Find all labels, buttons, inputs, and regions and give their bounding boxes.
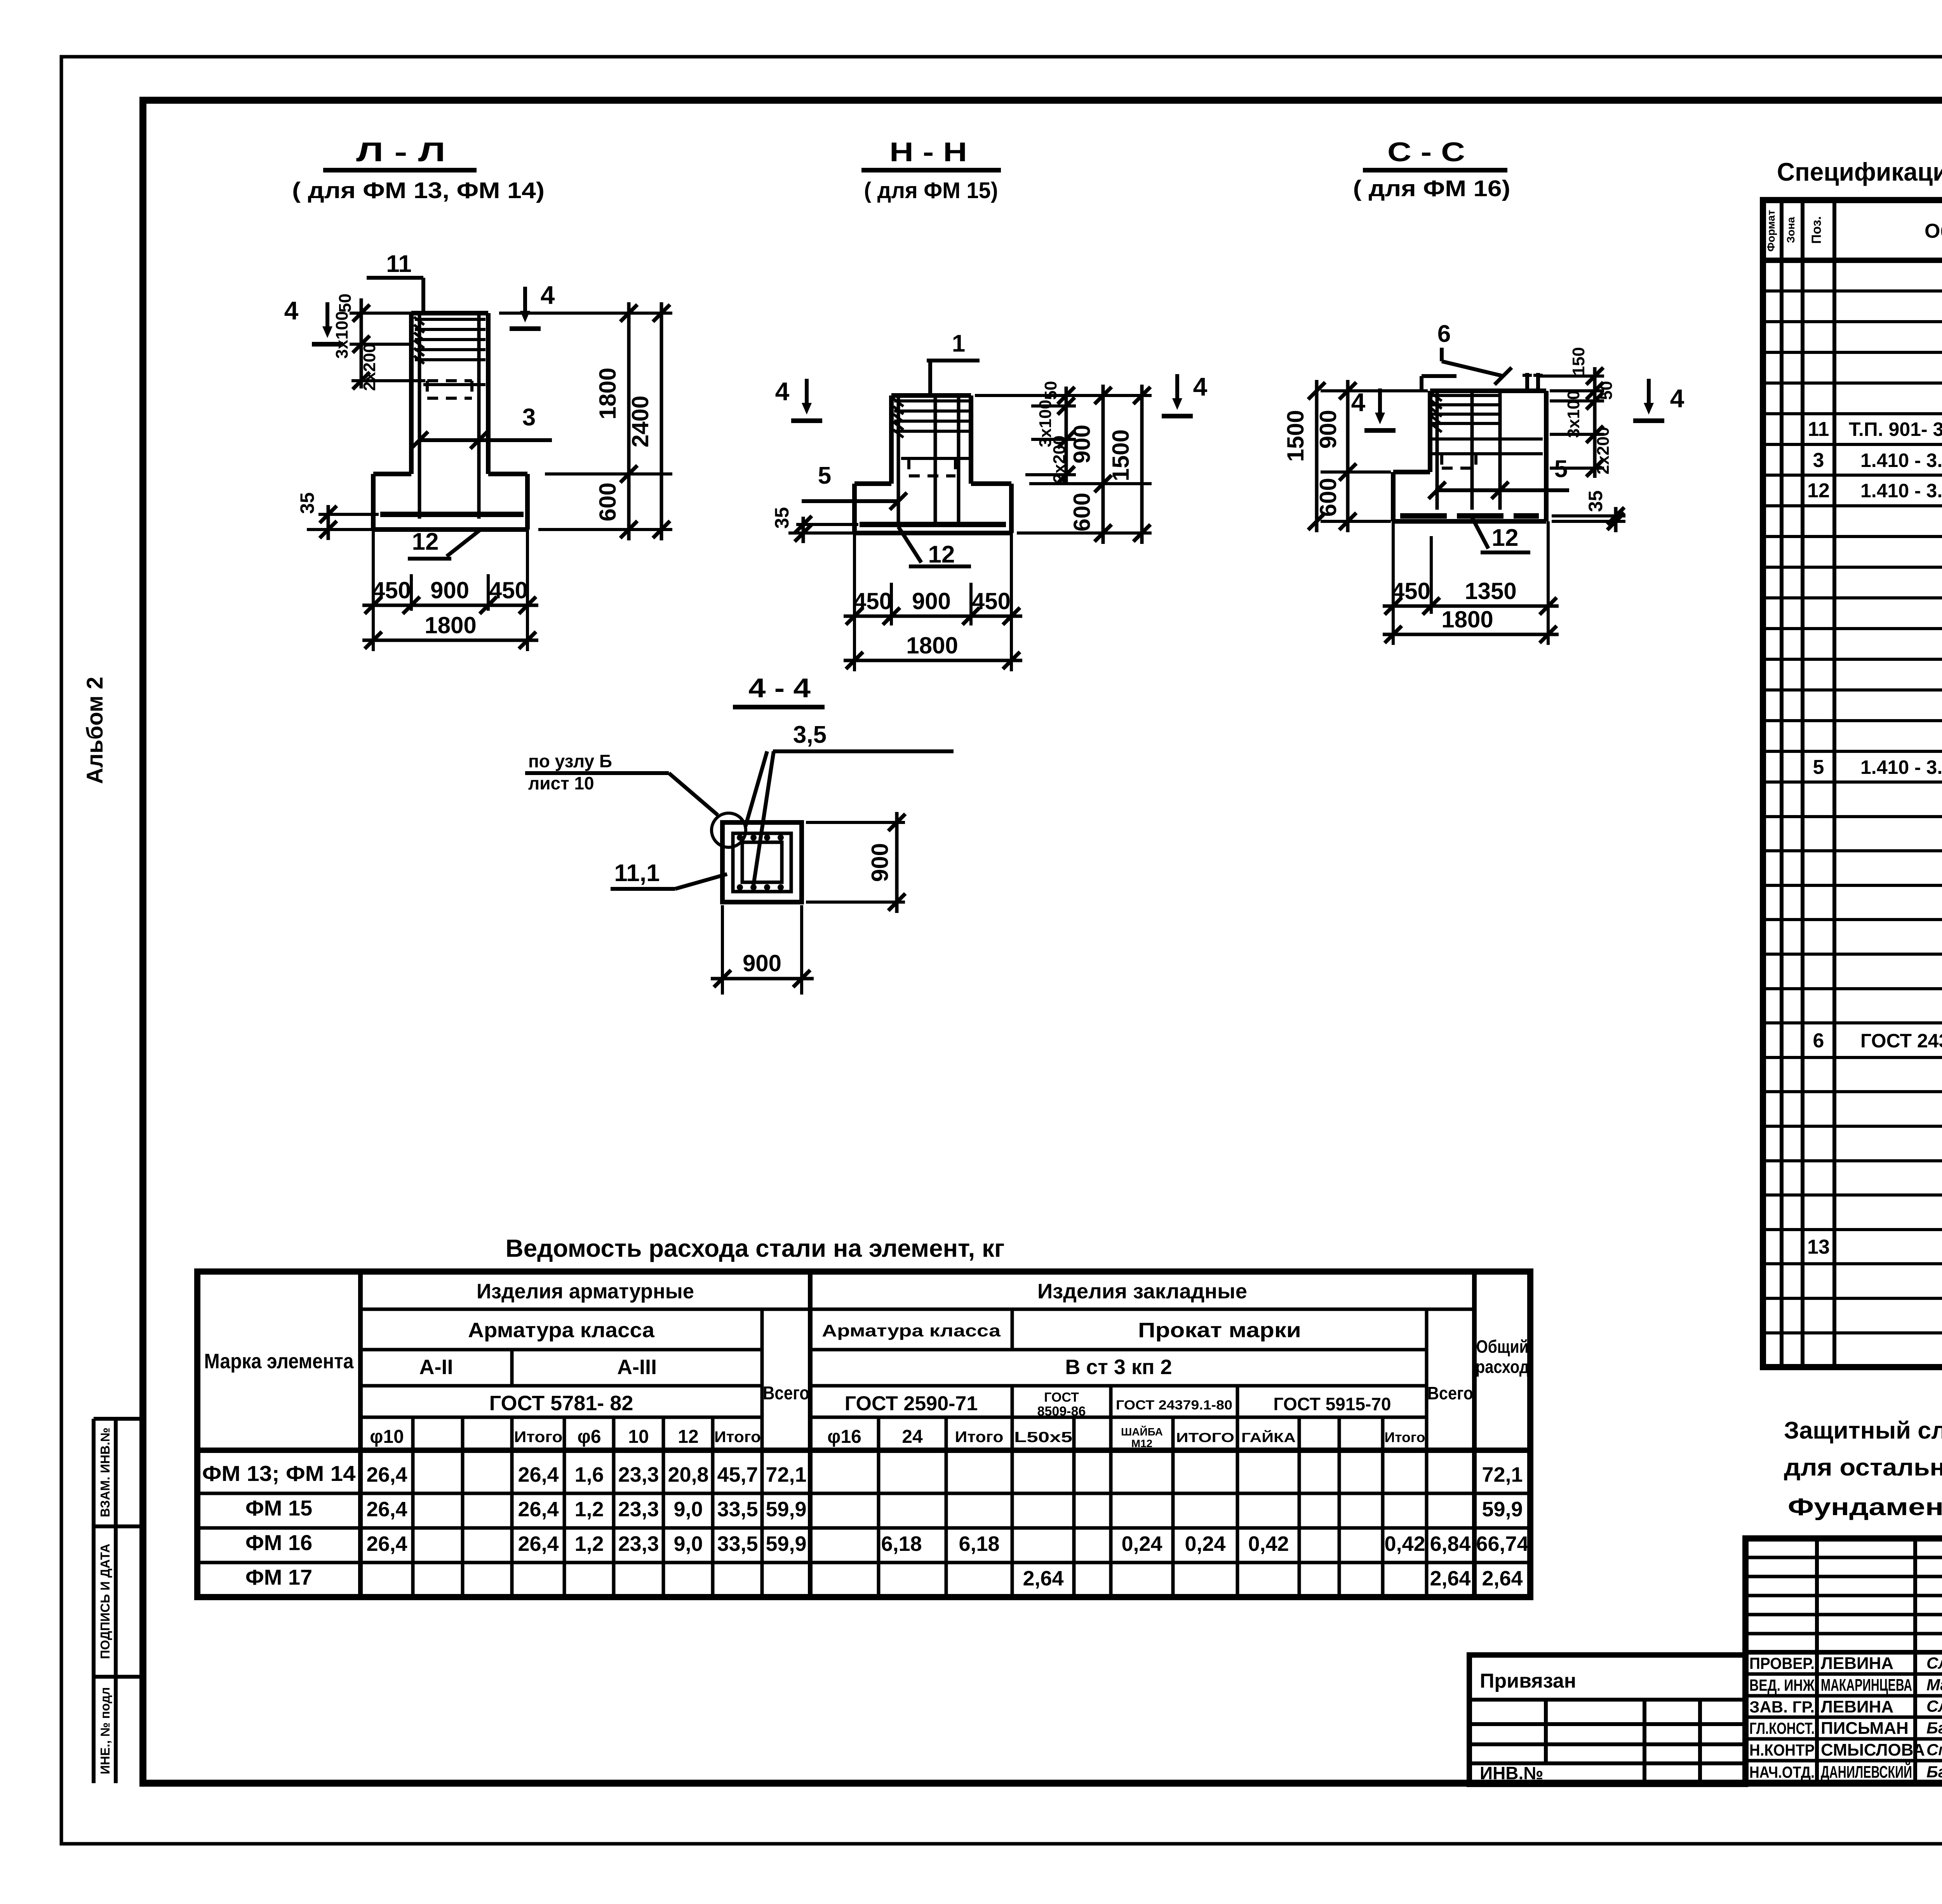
N-N right small dim chain xyxy=(975,394,1152,397)
L-L vertical bars xyxy=(418,313,421,519)
svg-text:1500: 1500 xyxy=(1108,429,1134,481)
svg-text:Спецификация к монолитным ф: Спецификация к монолитным фундаментам ФМ… xyxy=(1777,157,1942,186)
L-L bottom dim 450 900 450 xyxy=(362,604,538,607)
svg-text:2400: 2400 xyxy=(627,395,653,447)
svg-text:1,2: 1,2 xyxy=(574,1498,604,1521)
S-S pedestal mesh horizontal bars xyxy=(1432,394,1500,397)
svg-text:2,64: 2,64 xyxy=(1430,1567,1470,1590)
S-S bottom dim 450 1350 xyxy=(1383,604,1559,608)
svg-text:Всего: Всего xyxy=(1427,1383,1473,1403)
svg-text:26,4: 26,4 xyxy=(518,1463,559,1486)
svg-text:24: 24 xyxy=(902,1427,923,1447)
N-N pedestal mesh horizontal bars xyxy=(894,399,969,402)
S-S bottom dim 1800 xyxy=(1383,633,1559,636)
svg-text:1800: 1800 xyxy=(425,612,476,638)
svg-text:12: 12 xyxy=(1807,479,1830,502)
svg-text:10: 10 xyxy=(628,1427,649,1447)
svg-text:2x200: 2x200 xyxy=(1594,427,1613,474)
S-S anchor bolts on top xyxy=(1525,373,1529,391)
svg-text:В ст 3 кп 2: В ст 3 кп 2 xyxy=(1065,1355,1172,1379)
svg-text:2x200: 2x200 xyxy=(1050,435,1069,483)
spec table row lines left zone xyxy=(1763,289,1942,293)
svg-text:Н.КОНТР: Н.КОНТР xyxy=(1749,1741,1815,1759)
svg-text:2x200: 2x200 xyxy=(360,343,379,391)
L-L left small dim chain 50 3x100 2x200 xyxy=(350,312,412,315)
svg-text:Арматура класса: Арматура класса xyxy=(822,1321,1001,1340)
svg-text:Прокат марки: Прокат марки xyxy=(1138,1319,1301,1342)
svg-text:23,3: 23,3 xyxy=(618,1498,659,1521)
svg-text:12: 12 xyxy=(678,1427,698,1447)
svg-text:ГОСТ: ГОСТ xyxy=(1044,1390,1079,1405)
N-N bottom extension lines xyxy=(853,533,856,671)
svg-text:23,3: 23,3 xyxy=(618,1463,659,1486)
N-N bottom dim 1800 xyxy=(844,659,1022,662)
svg-text:2,64: 2,64 xyxy=(1482,1567,1523,1590)
svg-text:ПИСЬМАН: ПИСЬМАН xyxy=(1821,1719,1909,1738)
svg-text:6: 6 xyxy=(1437,321,1451,347)
L-L dashed mesh box xyxy=(427,379,472,382)
N-N pedestal outline xyxy=(889,395,894,484)
svg-text:φ10: φ10 xyxy=(370,1427,404,1447)
4-4 detail circle xyxy=(712,813,746,847)
svg-text:450: 450 xyxy=(972,588,1011,614)
svg-text:Изделия арматурные: Изделия арматурные xyxy=(477,1280,694,1303)
svg-text:33,5: 33,5 xyxy=(717,1532,758,1556)
svg-text:1.410 - 3.1 - 12: 1.410 - 3.1 - 12 xyxy=(1860,480,1942,502)
privyazan stamp block xyxy=(1469,1655,1745,1784)
svg-text:ЛЕВИНА: ЛЕВИНА xyxy=(1821,1654,1893,1673)
svg-text:ГАЙКА: ГАЙКА xyxy=(1241,1430,1296,1445)
svg-text:59,9: 59,9 xyxy=(1482,1498,1523,1521)
svg-text:900: 900 xyxy=(867,843,893,882)
svg-text:150: 150 xyxy=(1569,347,1588,375)
svg-text:ШАЙБА: ШАЙБА xyxy=(1121,1425,1163,1438)
L-L bottom rebar mesh 12 xyxy=(380,512,524,517)
S-S dashed mesh box xyxy=(1442,452,1476,455)
4-4 bottom dim 900 xyxy=(721,905,724,995)
svg-text:33,5: 33,5 xyxy=(717,1498,758,1521)
svg-text:900: 900 xyxy=(1315,410,1341,449)
svg-text:1800: 1800 xyxy=(595,368,621,419)
svg-text:72,1: 72,1 xyxy=(1482,1463,1523,1486)
svg-text:450: 450 xyxy=(853,588,892,614)
svg-text:9,0: 9,0 xyxy=(673,1498,703,1521)
L-L footing outline xyxy=(373,472,411,476)
S-S mesh flag xyxy=(1422,374,1456,378)
svg-text:4: 4 xyxy=(1670,384,1684,413)
svg-text:А-III: А-III xyxy=(617,1355,657,1379)
svg-text:ВЗАМ. ИНВ.№: ВЗАМ. ИНВ.№ xyxy=(98,1427,112,1517)
svg-text:0,42: 0,42 xyxy=(1384,1532,1425,1556)
svg-text:ПОДПИСЬ И ДАТА: ПОДПИСЬ И ДАТА xyxy=(98,1543,112,1659)
title block signature rows xyxy=(1745,1672,1942,1676)
svg-text:45,7: 45,7 xyxy=(717,1463,758,1486)
svg-text:26,4: 26,4 xyxy=(518,1498,559,1521)
svg-text:ГОСТ 5915-70: ГОСТ 5915-70 xyxy=(1273,1394,1391,1414)
svg-text:11: 11 xyxy=(1808,418,1829,441)
svg-text:26,4: 26,4 xyxy=(366,1463,407,1486)
svg-text:900: 900 xyxy=(912,588,951,614)
svg-text:Бгь: Бгь xyxy=(1926,1719,1942,1737)
svg-text:ЗАВ. ГР.: ЗАВ. ГР. xyxy=(1749,1698,1815,1716)
svg-text:ФМ 17: ФМ 17 xyxy=(245,1565,312,1589)
svg-text:72,1: 72,1 xyxy=(766,1463,806,1486)
S-S left dims 1500 900 600 xyxy=(1321,389,1428,392)
svg-text:ГОСТ 5781- 82: ГОСТ 5781- 82 xyxy=(489,1392,633,1415)
svg-text:СМЫСЛОВА: СМЫСЛОВА xyxy=(1821,1740,1925,1759)
S-S pedestal and footing outline xyxy=(1430,388,1546,393)
L-L right extension lines xyxy=(499,312,672,315)
svg-text:6: 6 xyxy=(1813,1030,1824,1052)
svg-text:Н - Н: Н - Н xyxy=(889,137,967,167)
svg-text:Всего: Всего xyxy=(763,1383,809,1404)
svg-text:( для ФМ 13, ФМ 14): ( для ФМ 13, ФМ 14) xyxy=(292,178,545,203)
svg-text:А-II: А-II xyxy=(419,1355,453,1379)
svg-text:для остальной - 20 мм.: для остальной - 20 мм. xyxy=(1784,1454,1942,1481)
svg-text:ВЕД. ИНЖ: ВЕД. ИНЖ xyxy=(1749,1676,1815,1694)
svg-text:3: 3 xyxy=(1813,449,1824,472)
svg-text:Арматура класса: Арматура класса xyxy=(468,1319,655,1342)
svg-text:φ16: φ16 xyxy=(827,1427,861,1447)
svg-text:900: 900 xyxy=(743,950,781,976)
4-4 column section squares xyxy=(722,822,802,902)
svg-text:С - С: С - С xyxy=(1387,137,1465,167)
svg-text:4 - 4: 4 - 4 xyxy=(748,673,811,703)
svg-text:4: 4 xyxy=(1193,372,1208,401)
svg-text:600: 600 xyxy=(1069,493,1095,531)
svg-text:Защитный слой бетона дл: Защитный слой бетона для нижней арматуры… xyxy=(1784,1417,1942,1444)
svg-text:450: 450 xyxy=(1392,578,1430,604)
svg-text:ГОСТ 24379.1-80: ГОСТ 24379.1-80 xyxy=(1116,1398,1232,1413)
svg-text:26,4: 26,4 xyxy=(366,1532,407,1556)
svg-text:450: 450 xyxy=(372,577,411,603)
svg-text:ГОСТ 2590-71: ГОСТ 2590-71 xyxy=(845,1392,978,1415)
svg-text:Зона: Зона xyxy=(1785,217,1797,243)
svg-text:ФМ 13; ФМ 14: ФМ 13; ФМ 14 xyxy=(202,1461,356,1486)
svg-text:ГОСТ 24379.1 - 80: ГОСТ 24379.1 - 80 xyxy=(1860,1030,1942,1052)
svg-text:Фундамент ФМ17 см. лист 9: Фундамент ФМ17 см. лист 9 xyxy=(1788,1494,1942,1521)
svg-text:35: 35 xyxy=(771,507,793,529)
N-N vertical bars xyxy=(897,395,900,526)
svg-text:50: 50 xyxy=(1597,381,1616,400)
svg-text:5: 5 xyxy=(818,462,831,489)
svg-text:ДАНИЛЕВСКИЙ: ДАНИЛЕВСКИЙ xyxy=(1821,1762,1912,1782)
svg-text:расход: расход xyxy=(1476,1357,1529,1377)
S-S bottom extension lines xyxy=(1392,521,1395,645)
L-L bottom extension lines xyxy=(372,530,375,651)
svg-text:φ6: φ6 xyxy=(577,1427,601,1447)
svg-text:М12: М12 xyxy=(1131,1437,1152,1449)
svg-text:66,74: 66,74 xyxy=(1476,1532,1528,1556)
svg-text:3x100: 3x100 xyxy=(1564,390,1583,438)
svg-text:Слев: Слев xyxy=(1926,1697,1942,1715)
N-N bottom dim 450 900 450 xyxy=(844,615,1022,618)
svg-text:Привязан: Привязан xyxy=(1480,1670,1576,1692)
svg-text:ИТОГО: ИТОГО xyxy=(1176,1430,1234,1445)
svg-text:1800: 1800 xyxy=(906,632,958,658)
svg-text:1350: 1350 xyxy=(1465,578,1516,604)
svg-text:Л - Л: Л - Л xyxy=(356,137,445,167)
svg-text:26,4: 26,4 xyxy=(518,1532,559,1556)
4-4 rebar dots xyxy=(737,834,743,841)
svg-text:Смуз: Смуз xyxy=(1926,1740,1942,1759)
svg-text:Итого: Итого xyxy=(1385,1429,1425,1445)
svg-text:6,18: 6,18 xyxy=(881,1532,922,1556)
svg-text:Итого: Итого xyxy=(714,1428,761,1446)
svg-text:59,9: 59,9 xyxy=(766,1498,806,1521)
svg-text:Альбом 2: Альбом 2 xyxy=(82,677,108,784)
4-4 right dim 900 xyxy=(806,821,905,824)
svg-text:900: 900 xyxy=(1069,425,1095,463)
S-S bottom rebar mesh 12 xyxy=(1400,513,1539,519)
svg-text:Ведомость расхода стали на: Ведомость расхода стали на элемент, кг xyxy=(506,1234,1005,1262)
svg-text:450: 450 xyxy=(489,577,528,603)
svg-text:ФМ 15: ФМ 15 xyxy=(245,1496,312,1520)
svg-text:600: 600 xyxy=(1315,478,1341,517)
svg-text:1800: 1800 xyxy=(1441,606,1493,632)
svg-text:Обозначение: Обозначение xyxy=(1925,220,1942,242)
svg-text:1,6: 1,6 xyxy=(574,1463,604,1486)
svg-text:1.410 - 3.1 - 01: 1.410 - 3.1 - 01 xyxy=(1860,449,1942,471)
svg-text:3: 3 xyxy=(522,404,536,431)
svg-text:Бгь: Бгь xyxy=(1926,1763,1942,1781)
S-S anchor hatch xyxy=(1432,393,1442,401)
svg-text:2,64: 2,64 xyxy=(1023,1567,1063,1590)
svg-text:по узлу Б: по узлу Б xyxy=(528,751,612,771)
svg-text:35: 35 xyxy=(1585,490,1606,512)
svg-text:3,5: 3,5 xyxy=(793,721,827,748)
svg-text:( для ФМ 16): ( для ФМ 16) xyxy=(1353,176,1510,201)
L-L dim 1800/600 vertical xyxy=(627,302,631,540)
svg-text:900: 900 xyxy=(430,577,469,603)
L-L bottom dim 1800 xyxy=(362,639,538,642)
svg-text:5: 5 xyxy=(1813,756,1824,779)
svg-text:59,9: 59,9 xyxy=(766,1532,806,1556)
svg-text:50: 50 xyxy=(336,294,355,313)
svg-text:12: 12 xyxy=(412,528,439,555)
svg-text:600: 600 xyxy=(595,483,621,521)
svg-text:12: 12 xyxy=(928,541,955,568)
svg-text:50: 50 xyxy=(1041,381,1060,400)
L-L pedestal outline xyxy=(409,313,414,474)
svg-text:ЛЕВИНА: ЛЕВИНА xyxy=(1821,1697,1893,1716)
svg-text:L50x5: L50x5 xyxy=(1014,1429,1072,1446)
svg-text:11,1: 11,1 xyxy=(614,860,660,887)
svg-text:20,8: 20,8 xyxy=(668,1463,708,1486)
svg-text:6,18: 6,18 xyxy=(959,1532,999,1556)
svg-text:Итого: Итого xyxy=(514,1428,563,1446)
svg-text:1,2: 1,2 xyxy=(574,1532,604,1556)
svg-text:12: 12 xyxy=(1492,524,1519,551)
N-N dashed mesh box xyxy=(909,457,955,460)
svg-text:6,84: 6,84 xyxy=(1430,1532,1470,1556)
svg-text:лист 10: лист 10 xyxy=(528,773,594,793)
spec table header row xyxy=(1763,258,1942,263)
main title block frame xyxy=(1745,1538,1942,1783)
svg-text:Слев: Слев xyxy=(1926,1654,1942,1672)
svg-text:4: 4 xyxy=(541,280,555,309)
steel table horizontal rules xyxy=(360,1308,1474,1311)
L-L pedestal mesh horizontal bars xyxy=(415,318,486,321)
svg-text:ИНЕ., № подл: ИНЕ., № подл xyxy=(98,1687,112,1775)
S-S right dim 150 and small chain xyxy=(1540,375,1604,378)
svg-text:1.410 - 3.1 - 01: 1.410 - 3.1 - 01 xyxy=(1860,756,1942,778)
N-N anchor hatch xyxy=(893,399,903,406)
left margin stamp boxes xyxy=(92,1419,96,1783)
svg-text:26,4: 26,4 xyxy=(366,1498,407,1521)
svg-text:13: 13 xyxy=(1807,1236,1830,1258)
L-L dim 2400 vertical xyxy=(660,302,663,540)
title block upper grid xyxy=(1745,1556,1942,1559)
svg-text:Формат: Формат xyxy=(1765,210,1777,251)
svg-text:ФМ 16: ФМ 16 xyxy=(245,1530,312,1555)
N-N right dims 900 600 1500 xyxy=(1029,482,1152,485)
svg-text:9,0: 9,0 xyxy=(673,1532,703,1556)
svg-text:ПРОВЕР.: ПРОВЕР. xyxy=(1749,1654,1815,1672)
svg-text:23,3: 23,3 xyxy=(618,1532,659,1556)
svg-text:Общий: Общий xyxy=(1476,1336,1529,1357)
svg-text:1500: 1500 xyxy=(1282,410,1309,462)
svg-text:Итого: Итого xyxy=(955,1428,1004,1446)
N-N bottom rebar mesh 12 xyxy=(860,522,1006,527)
svg-text:8509-86: 8509-86 xyxy=(1037,1404,1086,1419)
svg-text:4: 4 xyxy=(284,296,299,325)
svg-text:0,42: 0,42 xyxy=(1248,1532,1289,1556)
svg-text:МАКАРИНЦЕВА: МАКАРИНЦЕВА xyxy=(1821,1676,1912,1695)
svg-text:0,24: 0,24 xyxy=(1121,1532,1162,1556)
svg-text:4: 4 xyxy=(775,377,790,406)
svg-text:( для ФМ 15): ( для ФМ 15) xyxy=(864,178,998,203)
svg-text:ГЛ.КОНСТ.: ГЛ.КОНСТ. xyxy=(1749,1719,1815,1737)
L-L anchor hatch xyxy=(414,317,424,325)
svg-text:ИНВ.№: ИНВ.№ xyxy=(1480,1763,1544,1783)
svg-text:Мгкц: Мгкц xyxy=(1926,1676,1942,1694)
svg-text:0,24: 0,24 xyxy=(1185,1532,1225,1556)
N-N footing outline xyxy=(854,481,891,486)
svg-text:Т.П. 901- 3 - 260.89: Т.П. 901- 3 - 260.89 xyxy=(1849,418,1942,440)
svg-text:11: 11 xyxy=(386,251,412,277)
svg-text:Марка элемента: Марка элемента xyxy=(204,1350,354,1373)
spec table outer frame xyxy=(1763,200,1942,1367)
S-S vertical bars xyxy=(1436,391,1439,510)
svg-text:Поз.: Поз. xyxy=(1809,216,1824,244)
svg-text:35: 35 xyxy=(296,492,318,514)
svg-text:1: 1 xyxy=(952,330,965,357)
svg-text:3x100: 3x100 xyxy=(332,311,352,359)
steel table vertical rules xyxy=(358,1272,363,1597)
steel table outer frame xyxy=(197,1272,1530,1597)
svg-text:Изделия закладные: Изделия закладные xyxy=(1037,1280,1247,1303)
svg-text:НАЧ.ОТД.: НАЧ.ОТД. xyxy=(1749,1763,1815,1781)
